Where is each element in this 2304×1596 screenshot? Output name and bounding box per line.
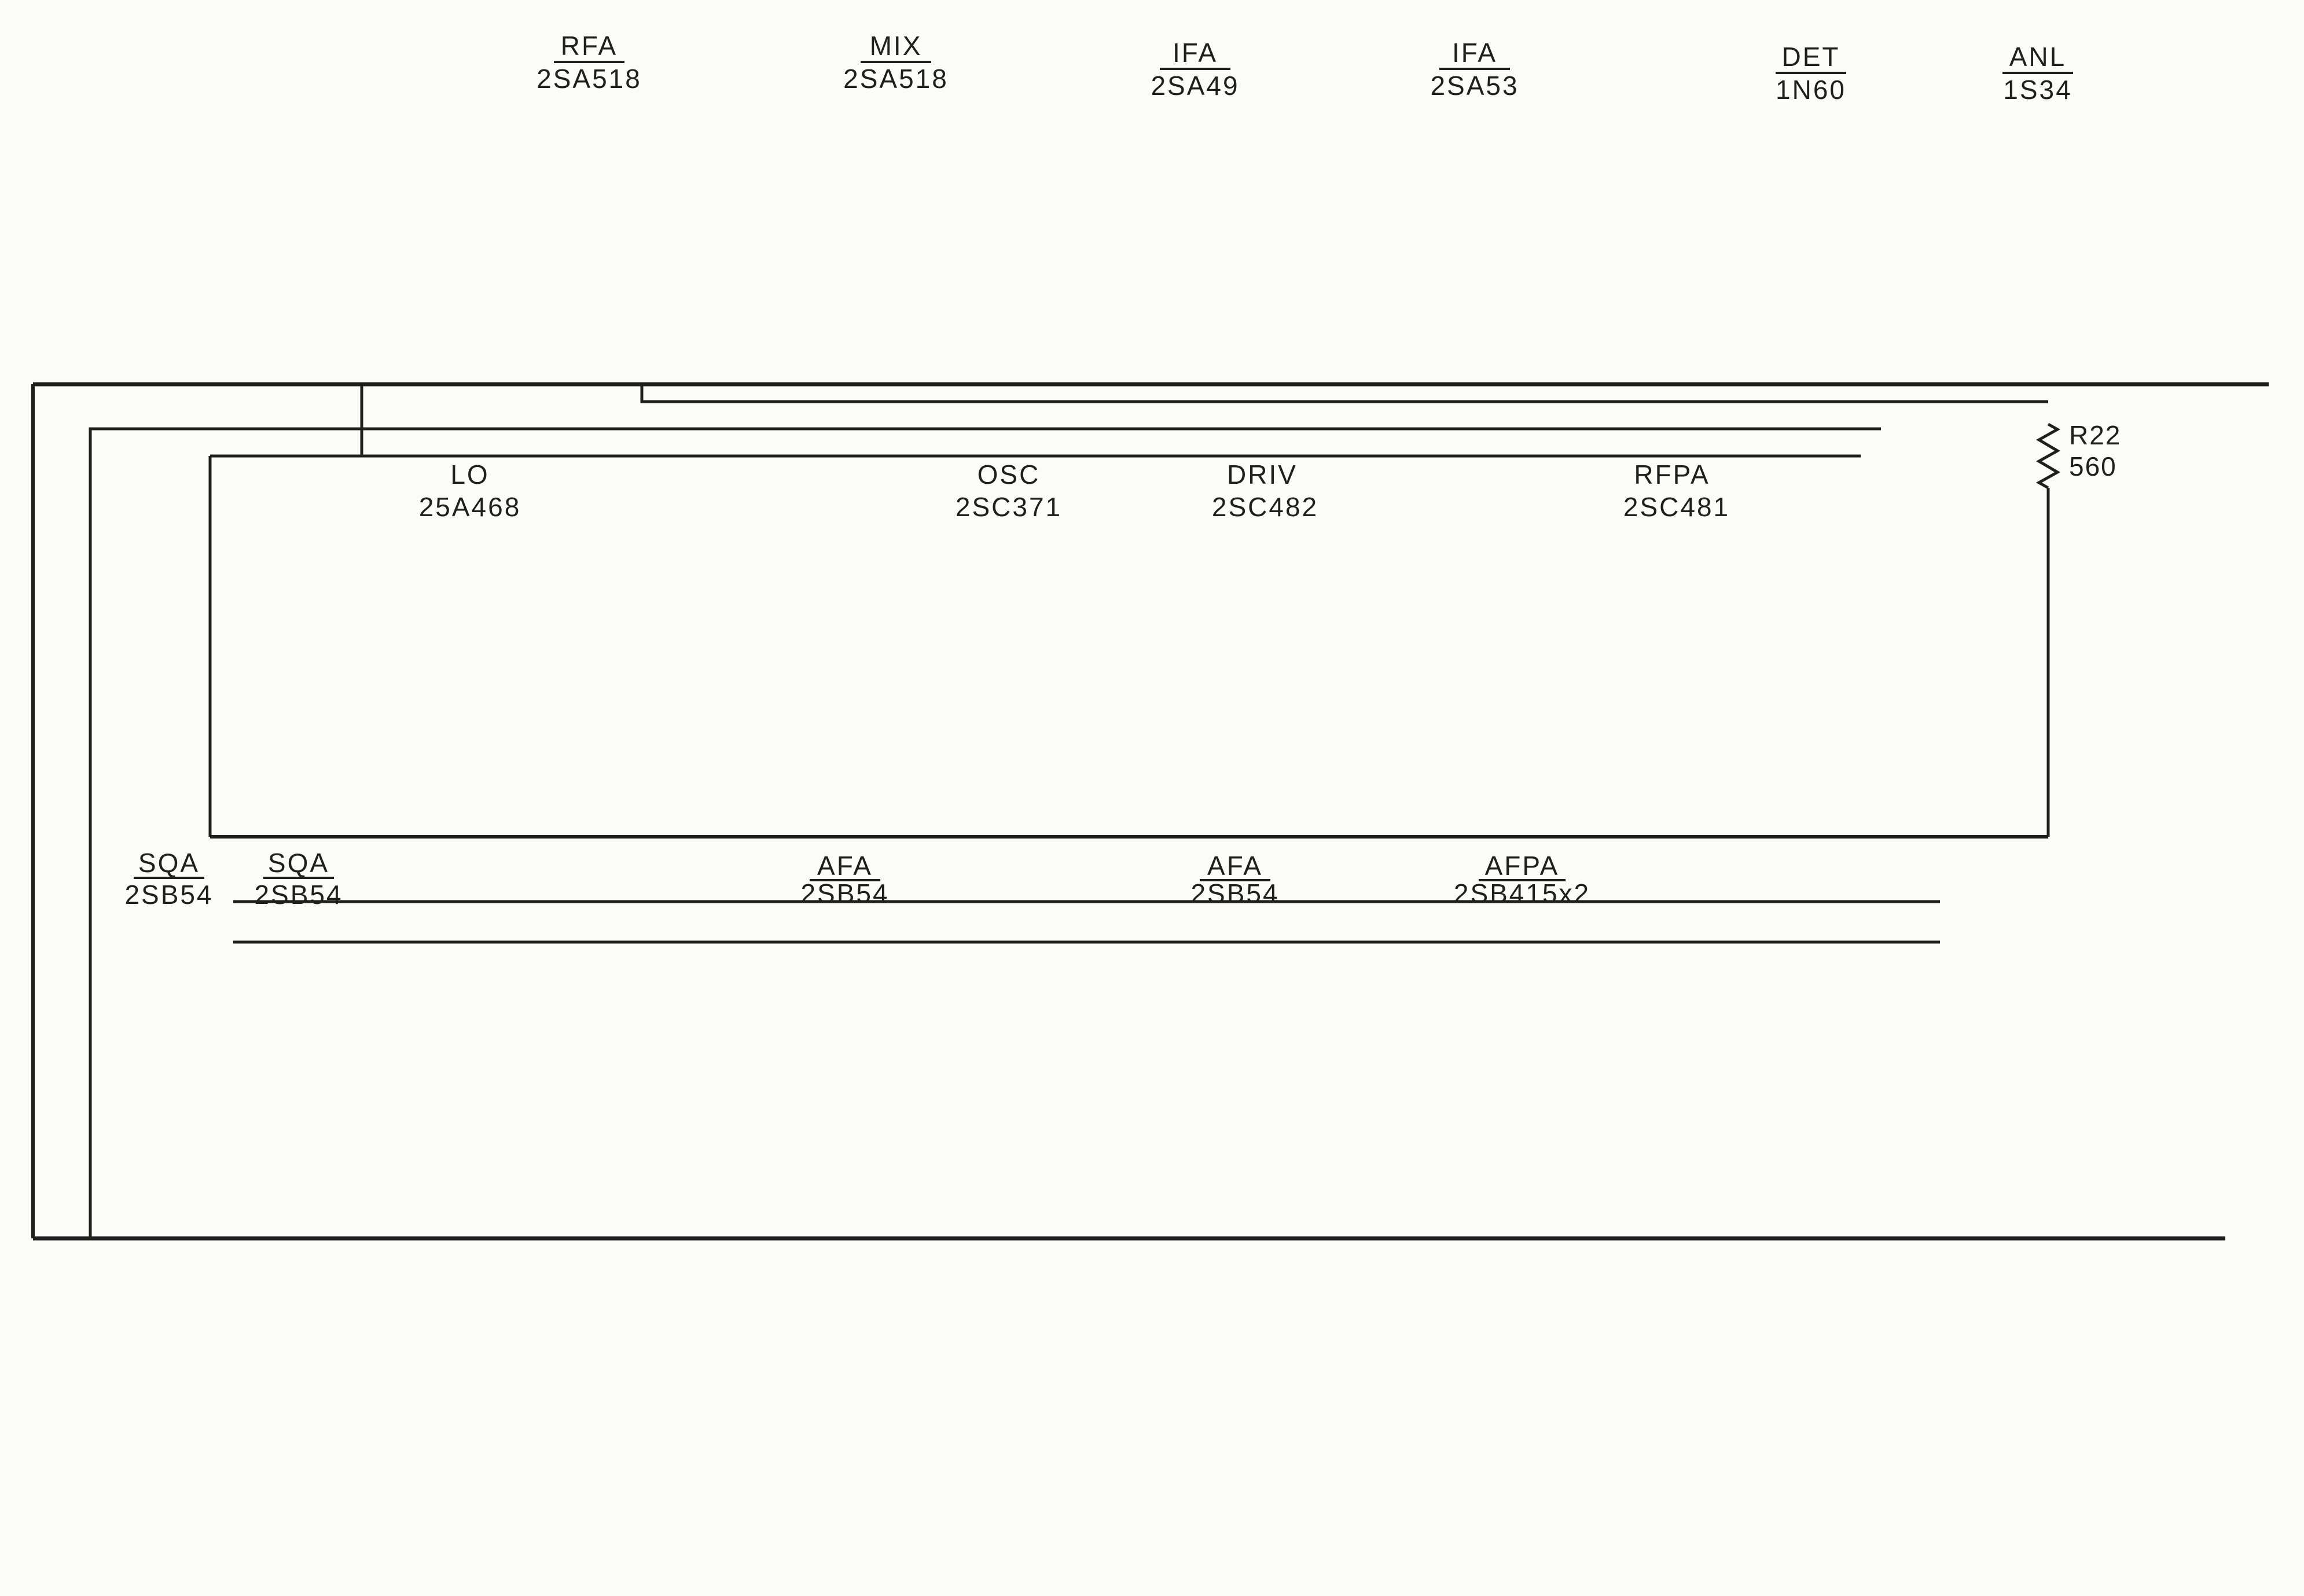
label IFA section [1151,38,1239,101]
wire left border vertical [31,384,35,1238]
svg-text:DRIV: DRIV [1227,459,1298,490]
wire TX box [210,384,362,456]
svg-text:SQA: SQA [268,848,329,878]
svg-text:DET: DET [1782,42,1840,72]
label DRIV section [1212,459,1318,522]
wire R22 lower [2047,488,2050,837]
svg-text:2SA49: 2SA49 [1151,71,1239,101]
wire rail B [90,429,1881,1238]
svg-text:2SB415x2: 2SB415x2 [1454,878,1590,909]
wire main top ground bus [33,383,2269,387]
svg-text:AFPA: AFPA [1485,851,1560,881]
label RFA section [537,31,642,94]
svg-text:AFA: AFA [817,851,873,881]
svg-text:560: 560 [2069,451,2117,481]
svg-text:R22: R22 [2069,420,2121,450]
svg-text:2SC371: 2SC371 [956,492,1062,522]
svg-text:IFA: IFA [1452,38,1497,68]
wire TX box top [210,455,1861,458]
svg-text:OSC: OSC [978,459,1041,490]
svg-text:2SB54: 2SB54 [124,880,213,910]
svg-text:2SC482: 2SC482 [1212,492,1318,522]
label LO section [419,459,521,522]
svg-text:2SA518: 2SA518 [537,64,642,94]
label AFA2 section [1190,851,1279,909]
label RFPA section [1623,459,1730,522]
resistor R22 [2039,420,2121,488]
svg-text:SQA: SQA [138,848,200,878]
svg-text:2SB54: 2SB54 [1190,878,1279,909]
label IFA2 section [1430,38,1519,101]
svg-text:ANL: ANL [2009,42,2066,72]
svg-text:AFA: AFA [1207,851,1263,881]
svg-text:25A468: 25A468 [419,492,521,522]
label ANL section [2002,42,2073,105]
svg-text:RFPA: RFPA [1634,459,1710,490]
wire AF rail 2 [233,941,1940,944]
wire AF rail 1 [233,900,1940,903]
wire TX box left [209,456,212,837]
svg-text:RFA: RFA [561,31,618,61]
wire bottom ground bus [33,1237,2225,1241]
label MIX section [843,31,949,94]
label OSC section [956,459,1062,522]
svg-text:2SC481: 2SC481 [1623,492,1730,522]
label SQA section [124,848,213,910]
wire TX box bottom [210,835,2048,839]
svg-text:1N60: 1N60 [1776,75,1846,105]
svg-text:2SA518: 2SA518 [843,64,949,94]
svg-text:MIX: MIX [870,31,923,61]
label SQA2 section [254,848,343,910]
label DET section [1776,42,1846,105]
svg-text:IFA: IFA [1173,38,1218,68]
svg-text:1S34: 1S34 [2003,75,2072,105]
svg-text:2SA53: 2SA53 [1430,71,1519,101]
svg-text:LO: LO [450,459,489,490]
label AFPA section [1454,851,1590,909]
wire B- feed drop [642,384,2048,402]
svg-text:2SB54: 2SB54 [254,880,343,910]
label AFA section [800,851,889,909]
svg-text:2SB54: 2SB54 [800,878,889,909]
